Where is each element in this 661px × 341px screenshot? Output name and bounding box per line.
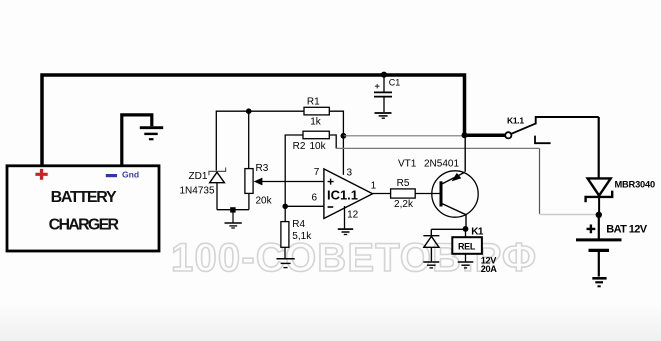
label C1 plus [375,84,380,88]
svg-text:ZD1: ZD1 [189,171,208,182]
wire: R2 battery sense run vertical drop [539,148,541,214]
schottky diode MBR3040 [586,178,613,212]
transistor base bar [440,181,443,206]
svg-text:1k: 1k [310,117,322,128]
svg-text:R4: R4 [292,219,305,230]
wire: sense run light segment to battery node [540,214,597,216]
wire: op-amp output [373,193,391,195]
svg-text:6: 6 [312,193,318,204]
relay coil K1 box [452,237,482,254]
wire: pin 6 input [285,205,324,207]
wire: ZD1 bottom rail [217,209,249,211]
potentiometer R3 [245,113,253,210]
svg-text:R5: R5 [397,178,410,189]
relay contact K1.1 blade [511,123,536,133]
relay contact K1.1 NC terminal [535,136,551,144]
wire: +12V top rail from charger to K1.1 [42,75,505,166]
zener diode ZD1 [209,168,226,210]
svg-text:IC1.1: IC1.1 [327,187,358,202]
ground (charger) [140,128,163,140]
svg-text:5,1k: 5,1k [292,231,312,242]
ground (op-amp pin 12) [338,229,353,234]
node: bottom rail ground junction [230,207,235,212]
transistor emitter arrow (PNP) [452,173,462,182]
wire: R3 wiper to pin 7 [261,181,324,183]
op-amp plus sign [328,179,334,185]
svg-text:R1: R1 [307,96,320,107]
wire: junction to emitter node [343,135,463,137]
node: pin6/R2/R4 junction [282,204,288,210]
svg-text:R3: R3 [256,163,269,174]
svg-text:2N5401: 2N5401 [424,158,459,169]
capacitor C1 [374,76,392,112]
ground (R4) [277,259,295,268]
node: C1 tap junction [381,72,387,78]
transistor collector lead [442,204,466,229]
svg-text:2,2k: 2,2k [394,199,414,210]
R3 wiper arrow [254,178,263,186]
wire: relay coil to ground [465,253,467,261]
svg-text:VT1: VT1 [398,158,417,169]
flyback diode [423,229,439,261]
svg-text:7: 7 [314,167,320,178]
svg-text:K1: K1 [471,227,484,238]
svg-text:Gnd: Gnd [122,169,139,179]
svg-text:1: 1 [371,181,377,192]
node: rail/R3 junction [246,108,252,114]
wire: reference rail from R1 to ZD1/R3 [216,111,304,170]
svg-text:REL: REL [458,241,476,251]
op-amp minus sign [328,206,334,208]
svg-text:K1.1: K1.1 [507,115,524,125]
ground (C1) [375,113,392,118]
label - (charger minus, navy) [106,174,117,177]
wire: charger Gnd lead [122,115,152,166]
svg-text:20k: 20k [256,196,273,207]
ground (battery) [592,278,606,286]
resistor R5 [391,189,440,198]
node: thick-wire / emitter junction [462,132,468,138]
label + (charger plus, red) [35,169,47,180]
ground (ZD1 rail) [225,212,242,228]
battery charger box [7,166,159,251]
svg-text:BAT 12V: BAT 12V [606,224,647,236]
svg-text:BATTERY: BATTERY [51,189,117,206]
transistor emitter lead [442,137,465,184]
resistor R1 [304,107,343,133]
op-amp IC1.1 [324,169,373,219]
node: battery positive junction [596,212,602,218]
svg-text:12: 12 [347,210,359,221]
resistor R4 [281,206,289,258]
svg-text:20A: 20A [481,264,497,274]
wire: junction to flyback diode [431,228,465,230]
svg-text:R2: R2 [293,141,306,152]
battery BAT 12V symbol [576,216,622,277]
node: collector/relay junction [463,226,469,232]
label BAT plus [587,225,596,234]
svg-text:CHARGER: CHARGER [49,216,120,233]
relay contact K1.1 NO terminal [536,117,599,124]
wire: pin 12 to ground [344,206,346,228]
ground (flyback diode) [423,262,439,268]
wire: R2 battery sense run horizontal [336,147,539,149]
resistor R2 [285,131,336,206]
svg-text:1N4735: 1N4735 [180,186,215,197]
transistor VT1 circle [432,171,478,217]
ground (relay coil) [458,262,474,268]
wire: NO terminal down to diode [598,117,600,178]
relay contact K1.1 pole circle [505,132,511,138]
svg-text:MBR3040: MBR3040 [615,180,655,190]
svg-text:C1: C1 [389,78,401,88]
wire: pin 3 drop [342,136,344,175]
svg-text:3: 3 [347,167,353,178]
svg-text:10k: 10k [310,141,327,152]
wire: junction to relay coil [465,229,467,238]
node: R1/pin3 junction [341,133,347,139]
